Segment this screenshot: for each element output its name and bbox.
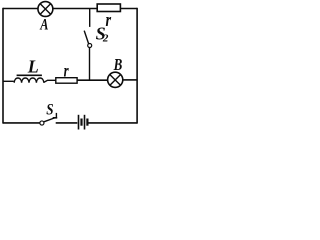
switch S2 blade <box>84 31 89 44</box>
inductor L coil <box>14 78 44 83</box>
wire lamp A to top resistor <box>53 8 97 10</box>
resistor r (top) <box>97 4 120 12</box>
svg-text:S: S <box>46 102 53 119</box>
switch S fixed contact foot <box>53 117 58 119</box>
wire middle resistor to lamp B <box>77 79 108 81</box>
svg-text:r: r <box>106 10 112 31</box>
wire battery to bottom-right corner <box>88 122 137 124</box>
wire lamp B to right border <box>123 79 138 81</box>
lamp A <box>38 2 53 17</box>
switch S blade <box>44 118 55 122</box>
lamp B <box>108 72 123 87</box>
battery plate long 2 (positive) <box>84 115 86 130</box>
wire top resistor to top-right corner <box>120 8 137 10</box>
svg-text:r: r <box>64 60 70 80</box>
wire inductor to middle resistor <box>44 80 56 82</box>
wire left border <box>2 8 4 124</box>
wire left border to inductor <box>3 80 14 82</box>
svg-text:L: L <box>27 56 39 76</box>
battery plate long 1 (positive) <box>78 115 80 130</box>
wire S2 pivot down to middle wire <box>89 48 91 81</box>
battery plate short 1 (negative) <box>80 119 82 126</box>
wire switch S to battery <box>56 122 78 124</box>
inductor L core bar <box>17 74 42 76</box>
svg-text:A: A <box>39 17 48 34</box>
svg-text:B: B <box>113 55 122 74</box>
wire top-left corner to lamp A <box>3 8 38 10</box>
battery plate short 2 (negative) <box>86 119 88 126</box>
wire right border <box>136 8 138 124</box>
wire bottom-left corner to switch S <box>3 122 40 124</box>
switch S pivot circle <box>40 121 44 125</box>
switch S fixed contact post <box>55 113 57 119</box>
svg-text:2: 2 <box>102 33 109 45</box>
resistor r (middle) <box>56 78 77 84</box>
switch S2 stub from top wire <box>89 9 91 27</box>
switch S2 pivot circle <box>88 44 92 48</box>
